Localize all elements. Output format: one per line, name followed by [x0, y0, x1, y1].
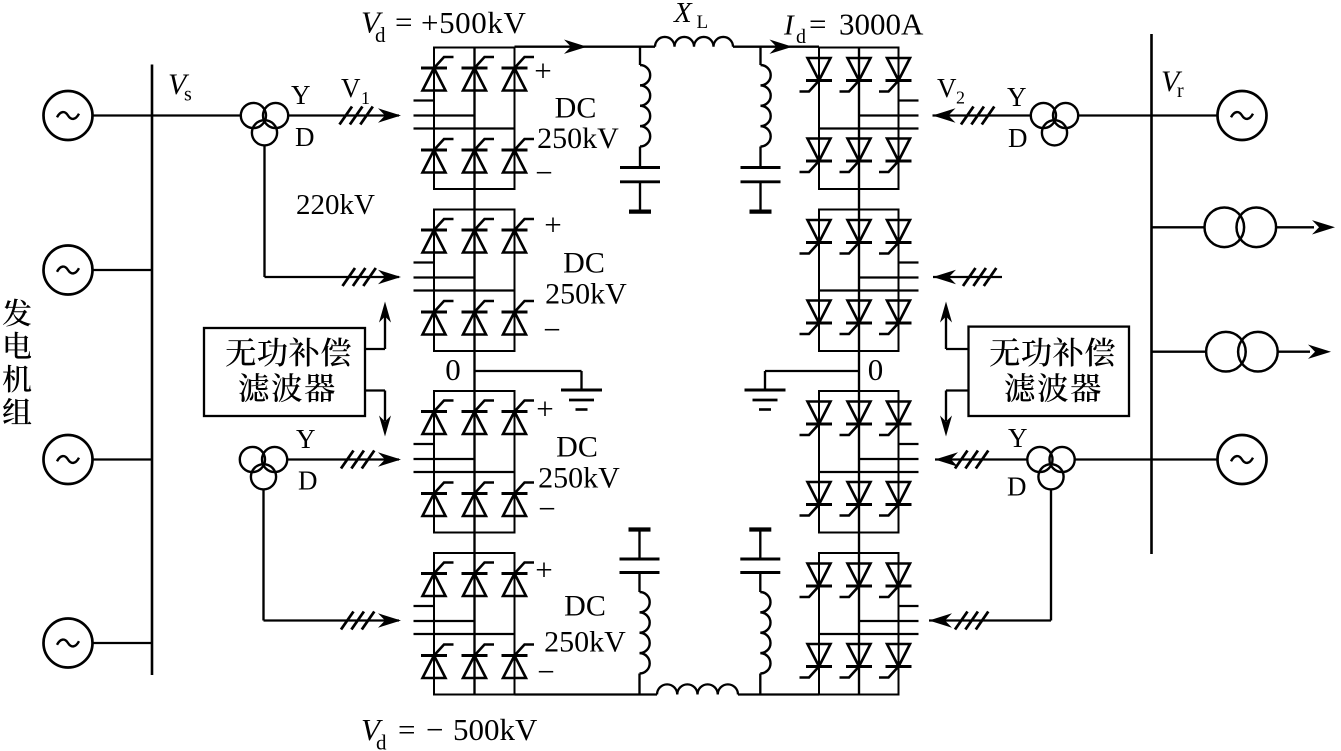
AC source right-top [1218, 91, 1267, 140]
svg-text:DC: DC [556, 431, 598, 464]
reactive arrow down (right) [940, 391, 952, 437]
label 滤波器 (right box line 2) [1005, 373, 1101, 402]
3-phase hatch marks B6 line [963, 268, 996, 286]
wire G1 to bus Vs [93, 114, 153, 116]
svg-text:r: r [1177, 80, 1184, 102]
thyristor B4 row1 col1 [421, 563, 454, 597]
svg-text:−: − [426, 712, 443, 747]
thyristor B8 row2 col1 [800, 644, 833, 678]
3-phase hatch marks B4 line [341, 612, 374, 630]
label + (B3) [536, 391, 553, 426]
AC generator G3 [44, 435, 93, 484]
label − (B2) [543, 312, 560, 347]
arrow into B7 [935, 452, 958, 466]
wire G3 to bus Vs [93, 458, 153, 460]
wire T4 D-winding drop to bridge B8 [929, 489, 1051, 620]
label V2 [937, 73, 965, 108]
thyristor B1 row2 col3 [502, 139, 535, 173]
thyristor B8 row1 col1 [800, 564, 833, 598]
inverter bridge B6 outline [819, 210, 899, 352]
label 滤波器 (left box line 2) [239, 373, 335, 402]
label Y (T2) [296, 424, 316, 454]
svg-text:d: d [796, 26, 806, 48]
svg-text:Y: Y [1008, 423, 1028, 453]
thyristor B6 row1 col3 [879, 220, 912, 254]
3-phase input stubs B4 [414, 606, 515, 634]
svg-text:DC: DC [555, 92, 597, 125]
wire T2 D-winding drop to bridge B4 [264, 489, 400, 620]
3-phase hatch marks B8 line [955, 612, 988, 630]
left converter middle column (series connection) [473, 48, 475, 695]
svg-text:+: + [534, 53, 551, 88]
thyristor B1 row1 col1 [421, 57, 454, 91]
wire T4 to bus Vr [1075, 458, 1152, 460]
thyristor B4 row1 col2 [462, 563, 495, 597]
thyristor B6 row2 col3 [879, 301, 912, 335]
3-phase output stubs B5 [819, 101, 919, 129]
arrow into B8 [929, 613, 952, 627]
label 无功补偿 (left box line 1) [226, 337, 351, 366]
label − (B1) [535, 155, 552, 190]
ground lead left [580, 371, 582, 390]
arrow into B4 [378, 613, 401, 627]
thyristor B2 row1 col3 [502, 219, 535, 253]
thyristor B8 row1 col3 [879, 564, 912, 598]
reactive arrow up (left) [379, 302, 391, 350]
svg-text:V: V [341, 73, 361, 103]
svg-text:Y: Y [296, 424, 316, 454]
label 250kV (B3) [538, 462, 620, 495]
svg-text:−: − [543, 312, 560, 347]
thyristor B2 row2 col3 [502, 301, 535, 335]
DC filter branch bottom-left (capacitor + reactor from ground) [620, 530, 660, 695]
thyristor B5 row2 col1 [800, 139, 833, 173]
arrow into B1 [378, 108, 401, 122]
converter transformer T4 (Y/D) [1027, 447, 1074, 490]
AC source right-bottom [1218, 435, 1267, 484]
thyristor B7 row1 col3 [879, 402, 912, 436]
svg-text:D: D [1007, 472, 1027, 502]
wire T4 to bridge B7 [935, 458, 1027, 460]
svg-text:X: X [673, 0, 693, 29]
thyristor B3 row1 col2 [462, 401, 495, 435]
thyristor B6 row2 col2 [840, 301, 873, 335]
svg-text:Y: Y [291, 80, 311, 110]
thyristor B4 row2 col3 [502, 645, 535, 679]
rectifier bridge B2 outline [434, 210, 515, 352]
svg-text:D: D [1008, 123, 1028, 153]
smoothing reactor (bottom pole) [657, 684, 738, 694]
smoothing reactor XL [655, 37, 733, 47]
wire right box lower stub [946, 389, 969, 391]
label 无功补偿 (right box line 1) [990, 337, 1115, 366]
thyristor B2 row1 col2 [462, 219, 495, 253]
AC generator G4 [44, 619, 93, 668]
label DC (B3) [556, 431, 598, 464]
distribution transformer TA (two-winding) [1205, 208, 1277, 248]
3-phase hatch marks B7 line [955, 451, 988, 469]
thyristor B5 row1 col3 [879, 58, 912, 92]
svg-text:=: = [395, 5, 412, 40]
converter transformer T1 (Y/D) [241, 103, 288, 146]
svg-text:1: 1 [361, 88, 370, 108]
svg-text:DC: DC [564, 590, 606, 623]
thyristor B7 row1 col1 [800, 402, 833, 436]
svg-text:I: I [783, 10, 795, 42]
wire bus to T1 [152, 114, 241, 116]
wire right box upper stub [946, 348, 969, 350]
thyristor B3 row2 col2 [462, 483, 495, 517]
label − (B4) [537, 654, 554, 689]
thyristor B2 row2 col1 [421, 301, 454, 335]
DC filter branch top-right (reactor + capacitor to ground) [741, 47, 781, 212]
wire to bridge B6 (floating end) [933, 276, 1002, 278]
svg-text:−: − [538, 491, 555, 526]
neutral wire right (node 0) [765, 370, 859, 372]
3-phase hatch marks B2 line [343, 268, 376, 286]
svg-text:0: 0 [445, 352, 461, 387]
3-phase input stubs B3 [414, 444, 515, 472]
thyristor B4 row2 col1 [421, 645, 454, 679]
thyristor B3 row2 col3 [502, 483, 535, 517]
svg-text:d: d [375, 23, 386, 47]
label V1 [341, 73, 370, 108]
label 250kV (B1) [537, 122, 619, 155]
inverter bridge B5 outline [819, 48, 899, 190]
converter transformer T3 (Y/D) [1031, 103, 1078, 146]
label 250kV (B4) [544, 626, 626, 659]
AC generator G1 [44, 91, 93, 140]
thyristor B4 row1 col3 [502, 563, 535, 597]
thyristor B4 row2 col2 [462, 645, 495, 679]
wire T3 to bridge B5 with arrow V2 [933, 114, 1032, 116]
svg-text:V: V [937, 73, 957, 103]
converter transformer T2 (Y/D) [240, 447, 287, 490]
svg-text:500kV: 500kV [453, 712, 538, 747]
label + (B4) [535, 552, 552, 587]
wire T3 to bus Vr [1078, 114, 1151, 116]
svg-text:−: − [535, 155, 552, 190]
thyristor B6 row2 col1 [800, 301, 833, 335]
thyristor B1 row2 col2 [462, 139, 495, 173]
label DC (B2) [563, 247, 605, 280]
wire bus Vr to right-top source [1152, 114, 1218, 116]
3-phase input stubs B2 [414, 263, 515, 291]
label 0 (left neutral) [445, 352, 461, 387]
thyristor B3 row1 col1 [421, 401, 454, 435]
thyristor B6 row1 col2 [840, 220, 873, 254]
wire T1 Y-winding to bridge B1 with arrow V1 [288, 114, 399, 116]
svg-text:=: = [398, 712, 415, 747]
arrow into B2 [378, 270, 401, 284]
label D (T3) [1008, 123, 1028, 153]
3-phase input stubs B1 [414, 101, 515, 129]
label XL [673, 0, 708, 33]
svg-text:250kV: 250kV [537, 122, 619, 155]
svg-text:250kV: 250kV [544, 626, 626, 659]
svg-text:L: L [697, 12, 709, 33]
svg-text:d: d [376, 731, 387, 751]
thyristor B7 row2 col1 [800, 482, 833, 516]
thyristor B2 row2 col2 [462, 301, 495, 335]
arrow into B5 [933, 108, 956, 122]
arrow into B6 [933, 270, 956, 284]
wire left box lower stub [365, 389, 385, 391]
rectifier bridge B1 outline [434, 48, 515, 190]
3-phase output stubs B6 [819, 263, 919, 291]
svg-text:+: + [535, 552, 552, 587]
distribution transformer TB (two-winding) [1206, 332, 1278, 372]
arrow load A [1312, 220, 1335, 234]
thyristor B5 row1 col1 [800, 58, 833, 92]
ground (right) [745, 390, 786, 410]
reactive power compensation filter box (right) [969, 327, 1130, 416]
svg-text:DC: DC [563, 247, 605, 280]
label 220kV [296, 189, 375, 221]
thyristor B1 row1 col3 [502, 57, 535, 91]
reactive power compensation filter box (left) [204, 328, 365, 416]
thyristor B8 row2 col2 [840, 644, 873, 678]
wire G4 to bus Vs [93, 642, 153, 644]
svg-text:2: 2 [956, 88, 965, 108]
DC filter branch bottom-right (capacitor + reactor from ground) [740, 530, 780, 695]
svg-text:0: 0 [868, 352, 884, 387]
svg-text:250kV: 250kV [545, 278, 627, 311]
right converter middle column (series connection) [858, 48, 860, 695]
label 0 (right neutral) [868, 352, 884, 387]
rectifier bridge B3 outline [434, 391, 515, 533]
thyristor B2 row1 col1 [421, 219, 454, 253]
wire TA to load with arrow [1276, 226, 1314, 228]
label DC (B4) [564, 590, 606, 623]
label D (T4) [1007, 472, 1027, 502]
label Y (T3) [1007, 82, 1027, 112]
arrow Id direction (right) [770, 40, 793, 54]
label DC (B1) [555, 92, 597, 125]
svg-text:−: − [537, 654, 554, 689]
inverter bridge B8 outline [819, 553, 899, 695]
svg-text:D: D [298, 466, 318, 496]
label Y (T4) [1008, 423, 1028, 453]
thyristor B7 row2 col2 [840, 482, 873, 516]
svg-text:+500kV: +500kV [421, 5, 526, 40]
svg-text:s: s [184, 84, 192, 106]
ground (left) [561, 390, 602, 410]
label Vr [1161, 65, 1184, 102]
wire bus Vr to TA [1152, 226, 1205, 228]
thyristor B5 row2 col2 [840, 139, 873, 173]
3-phase hatch marks B3 line [341, 451, 374, 469]
thyristor B7 row1 col2 [840, 402, 873, 436]
3-phase output stubs B8 [819, 606, 919, 634]
wire left box upper stub [365, 348, 385, 350]
arrow into B3 [378, 452, 401, 466]
bus Vr (receiving-end AC bus) [1150, 34, 1153, 554]
inverter bridge B7 outline [819, 391, 899, 533]
svg-text:3000A: 3000A [839, 7, 924, 42]
3-phase hatch marks V2 line [961, 107, 994, 125]
label Y (T1 wye winding) [291, 80, 311, 110]
label Vd = +500kV [361, 5, 526, 48]
label Vs [168, 68, 192, 106]
thyristor B1 row2 col1 [421, 139, 454, 173]
label D (T1 delta winding) [295, 122, 315, 152]
3-phase output stubs B7 [819, 444, 919, 472]
label D (T2) [298, 466, 318, 496]
wire T2 Y-winding to bridge B3 [287, 458, 399, 460]
thyristor B5 row1 col2 [840, 58, 873, 92]
thyristor B3 row2 col1 [421, 483, 454, 517]
neutral wire left (node 0) [475, 370, 582, 372]
DC pole wire +500kV (right segment) [733, 46, 819, 48]
wire TB to load with arrow [1278, 351, 1310, 353]
arrow Id direction (left) [564, 40, 587, 54]
svg-text:250kV: 250kV [538, 462, 620, 495]
label 250kV (B2) [545, 278, 627, 311]
thyristor B1 row1 col2 [462, 57, 495, 91]
DC pole wire −500kV (left segment) [515, 693, 658, 695]
label + (B2) [544, 207, 561, 242]
svg-text:Y: Y [1007, 82, 1027, 112]
label Vd = −500kV [361, 712, 538, 751]
wire T1 D-winding drop to bridge B2 [265, 145, 400, 277]
svg-text:220kV: 220kV [296, 189, 375, 221]
thyristor B8 row2 col3 [879, 644, 912, 678]
thyristor B7 row2 col3 [879, 482, 912, 516]
svg-text:+: + [536, 391, 553, 426]
arrow load B [1308, 345, 1331, 359]
3-phase hatch marks V1 line [340, 107, 373, 125]
rectifier bridge B4 outline [434, 553, 515, 695]
ground lead right [764, 371, 766, 390]
reactive arrow down (left) [379, 391, 391, 437]
label 发电机组 (generator units) [3, 299, 31, 424]
thyristor B5 row2 col3 [879, 139, 912, 173]
DC pole wire −500kV (right segment) [738, 693, 819, 695]
bus Vs (sending-end AC bus) [151, 65, 154, 676]
wire bus Vr to TB [1152, 351, 1207, 353]
thyristor B6 row1 col1 [800, 220, 833, 254]
svg-text:=: = [809, 7, 826, 42]
DC pole wire +500kV (left segment) [515, 46, 656, 48]
DC filter branch top-left (reactor + capacitor to ground) [620, 47, 660, 212]
wire bus Vr to right-bottom source [1152, 458, 1218, 460]
label − (B3) [538, 491, 555, 526]
thyristor B3 row1 col3 [502, 401, 535, 435]
label Id = 3000A [783, 7, 924, 49]
label + (B1) [534, 53, 551, 88]
thyristor B8 row1 col2 [840, 564, 873, 598]
svg-text:D: D [295, 122, 315, 152]
reactive arrow up (right) [940, 302, 952, 350]
AC generator G2 [44, 246, 93, 295]
wire G2 to bus Vs [93, 269, 153, 271]
svg-text:+: + [544, 207, 561, 242]
